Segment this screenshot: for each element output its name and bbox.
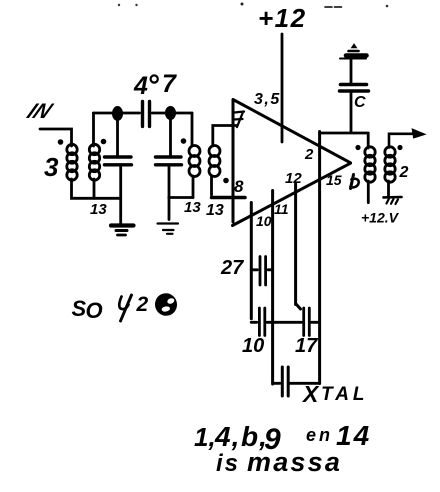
svg-text:12: 12 (285, 170, 302, 187)
svg-text:+12: +12 (258, 3, 307, 33)
svg-text:X: X (301, 381, 320, 407)
svg-text:C: C (354, 94, 366, 111)
svg-text:O: O (86, 298, 103, 323)
svg-text:4: 4 (133, 72, 148, 100)
svg-text:7: 7 (162, 70, 177, 98)
svg-text:2: 2 (136, 293, 149, 316)
svg-text:13: 13 (184, 199, 201, 216)
svg-text:3: 3 (44, 152, 59, 182)
svg-text:S: S (72, 296, 87, 321)
svg-text:1,: 1, (194, 422, 216, 452)
svg-text:2: 2 (399, 164, 409, 181)
svg-text:27: 27 (220, 257, 244, 279)
svg-text:IN: IN (23, 99, 57, 122)
svg-text:13: 13 (90, 201, 107, 218)
svg-text:TAL: TAL (321, 384, 369, 405)
svg-text:10: 10 (256, 213, 272, 229)
svg-text:+12.V: +12.V (361, 210, 400, 226)
svg-text:17: 17 (295, 335, 318, 357)
svg-text:massa: massa (247, 447, 342, 477)
svg-text:11: 11 (274, 201, 289, 217)
svg-text:en: en (306, 425, 333, 445)
svg-text:2: 2 (304, 146, 314, 163)
svg-text:3,5: 3,5 (254, 91, 281, 108)
svg-text:4,: 4, (214, 421, 240, 452)
svg-text:is: is (216, 450, 240, 477)
svg-text:8: 8 (234, 177, 244, 196)
svg-text:15: 15 (326, 172, 342, 188)
svg-text:13: 13 (206, 202, 224, 219)
svg-text:10: 10 (242, 335, 264, 357)
